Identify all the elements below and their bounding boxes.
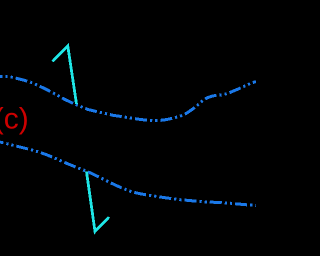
lower blue dash-dot curve bbox=[0, 142, 256, 206]
cyan arrow top bbox=[53, 46, 77, 104]
upper blue dash-dot curve bbox=[0, 77, 256, 121]
svg-text:(c): (c) bbox=[0, 103, 29, 136]
cyan arrow bottom bbox=[87, 172, 110, 232]
